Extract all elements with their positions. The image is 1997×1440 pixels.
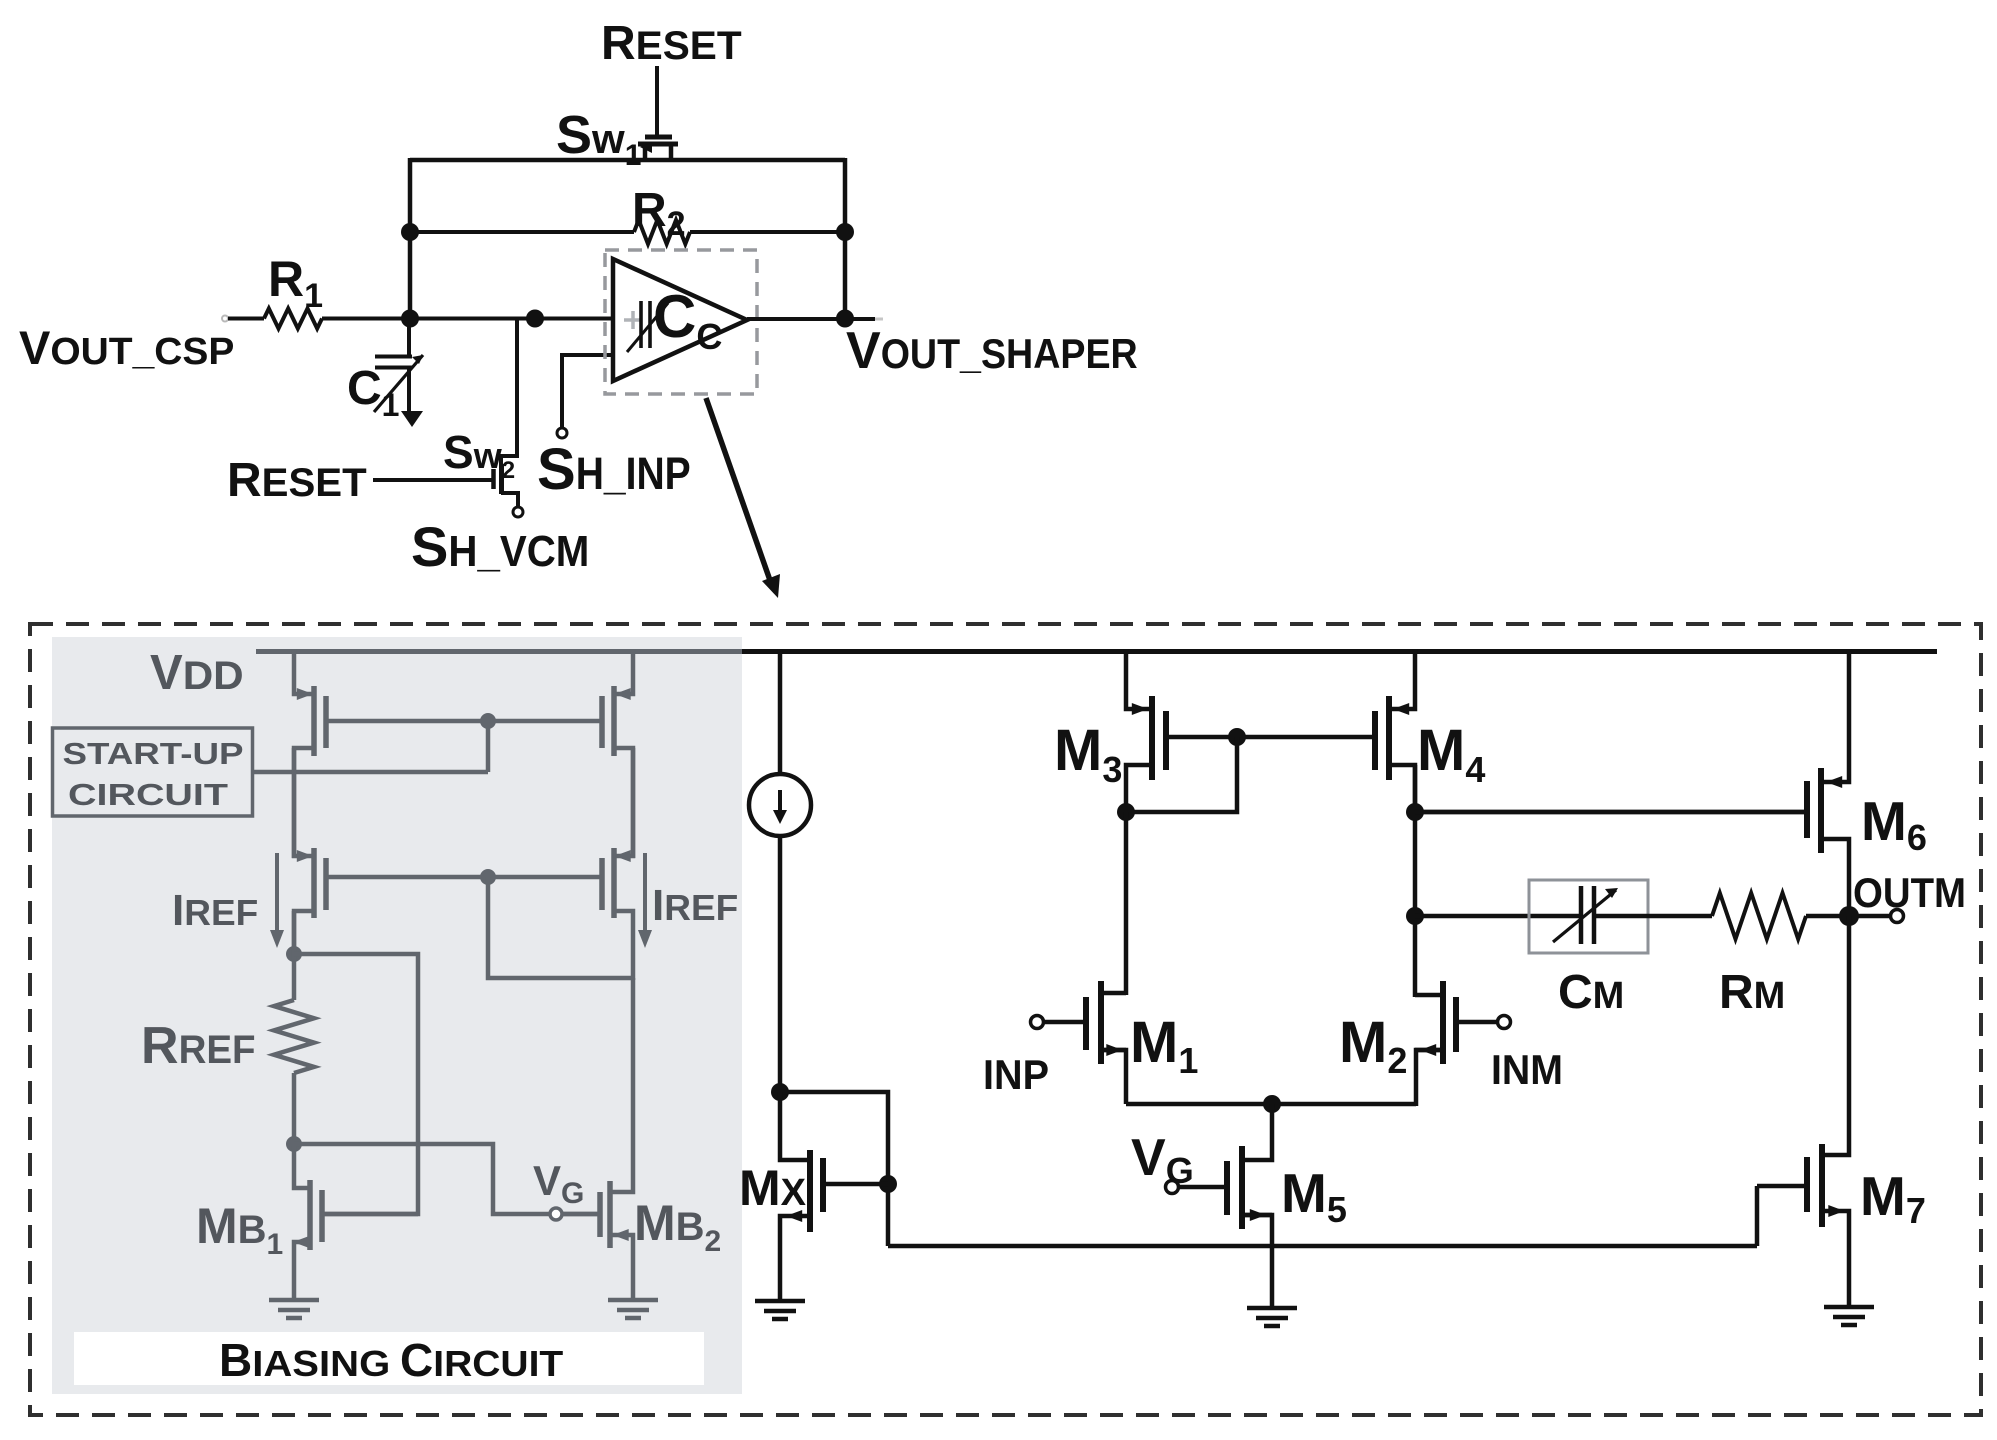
current IREF right arrow [638,853,652,948]
label RM [1719,966,1785,1019]
svg-text:START-UP: START-UP [63,736,244,771]
svg-text:VDD: VDD [150,646,244,700]
svg-text:MX: MX [739,1160,807,1216]
label M3 [1054,718,1122,790]
ground (MB2) [608,1300,658,1318]
label RESET (left) [227,454,367,507]
ground (M7) [1824,1307,1874,1325]
wire MX gate link [780,1092,888,1246]
label SH_INP [537,437,691,502]
label INM [1491,1046,1563,1093]
label M6 [1861,790,1927,858]
wire right feedback riser [843,158,848,321]
svg-text:OUTM: OUTM [1853,869,1966,916]
current IREF left arrow [270,853,284,948]
label RREF [141,1017,256,1075]
label VOUT_SHAPER [846,322,1138,380]
wire start-up output [253,723,488,772]
svg-text:IREF: IREF [652,881,738,930]
power rail VDD (black segment) [742,649,1937,654]
node OUTM terminal [1891,910,1904,923]
svg-text:M1: M1 [1130,1010,1198,1081]
label OUTM [1853,869,1966,916]
node OUTM junction [1839,906,1859,926]
svg-text:M7: M7 [1860,1165,1926,1231]
transistor MB2 [561,978,633,1300]
label CC [653,283,722,357]
svg-text:M3: M3 [1054,718,1122,790]
ground (MX) [755,1301,805,1319]
node VG terminal [1166,1181,1179,1194]
capacitor C1 (variable, with down arrow) [374,318,423,427]
transistor SW1 (reset switch) [638,137,678,161]
transistor SW2 (reset switch 2) [494,318,524,517]
svg-text:RM: RM [1719,966,1785,1019]
transistor M6 [1415,649,1849,916]
svg-text:VOUT_CSP: VOUT_CSP [19,321,234,374]
label VDD [150,646,244,700]
wire cascode diode connection [488,877,633,978]
transistor M5 [1179,1104,1272,1229]
node RREF top junction [286,946,302,962]
op-amp U1 dashed box [605,250,757,394]
wire M3 diode connection [1126,737,1237,812]
ground (MB1) [269,1300,319,1318]
wire input start tick [222,316,228,322]
svg-text:CM: CM [1558,966,1624,1019]
transistor bias cascode PMOS right [488,748,633,980]
start-up circuit block [53,728,253,816]
svg-text:M4: M4 [1417,718,1485,790]
node cascode gate junction [480,869,496,885]
label M7 [1860,1165,1926,1231]
svg-text:SH_INP: SH_INP [537,437,691,502]
transistor bias PMOS left (mirror top-left) [294,649,488,858]
label MX [739,1160,807,1216]
resistor R2 [410,220,845,244]
svg-text:R1: R1 [268,251,323,315]
biasing circuit gray panel [52,637,742,1394]
op-amp U1 [613,259,747,381]
node output junction [836,310,854,328]
wire M7 gate riser [1755,1186,1760,1246]
wire M6 gate link [1415,810,1807,815]
wire M5 source to ground [1242,1215,1272,1308]
op-amp plus marker [624,311,642,329]
label C1 [347,362,399,423]
node input junction [401,310,419,328]
resistor R1 [228,309,613,329]
dashed boundary of amplifier schematic [30,624,1981,1415]
svg-text:SH_VCM: SH_VCM [411,515,589,578]
label MB1 [196,1198,283,1261]
svg-text:RESET: RESET [227,454,367,507]
svg-text:INP: INP [983,1051,1049,1098]
svg-text:CIRCUIT: CIRCUIT [68,777,228,812]
ground (M5) [1247,1308,1297,1326]
resistor RREF [274,911,314,1146]
wire M1 source to tail [1101,1050,1126,1104]
node tail junction [1263,1095,1281,1113]
svg-text:INM: INM [1491,1046,1563,1093]
node SW2 tap [526,310,544,328]
svg-text:M5: M5 [1281,1162,1347,1230]
wire differential tail [1126,1102,1416,1107]
label INP [983,1051,1049,1098]
node output-tap junction [1406,907,1424,925]
node RESET (top label) [601,17,742,70]
label M5 [1281,1162,1347,1230]
label VOUT_CSP [19,321,234,374]
node junction R2-right [836,223,854,241]
wire M4 drain stack [1413,765,1418,997]
transistor M1 [1044,981,1126,1064]
label IREF left [172,886,258,935]
transistor M3 [1126,649,1237,814]
node M3 drain junction [1117,803,1135,821]
node MX gate junction [879,1175,897,1193]
wire left feedback riser [408,158,413,321]
transistor bias cascode PMOS left [294,748,488,956]
svg-text:CC: CC [653,283,722,357]
transistor M7 [1757,916,1849,1307]
wire M3 drain to M1 [1124,812,1129,995]
label VG [1131,1129,1194,1191]
svg-text:M6: M6 [1861,790,1927,858]
node RREF bottom junction [286,1136,302,1152]
transistor M2 [1415,981,1497,1064]
wire compensation branch [1415,914,1581,919]
node VG (bias) terminal [550,1208,600,1220]
label M2 [1339,1010,1407,1081]
label SW1 [556,105,641,172]
wire MB1 gate link [294,954,418,1214]
node junction R2-left [401,223,419,241]
node M4 drain junction (M6 gate) [1406,803,1424,821]
label M4 [1417,718,1485,790]
transistor bias PMOS right (mirror top-right) [488,649,633,858]
label IREF right [652,881,738,930]
node mirror gate junction [1228,728,1246,746]
capacitor CC (variable, inside op-amp) [627,301,668,352]
wire M2 source to tail [1416,1050,1443,1106]
label BIASING CIRCUIT [74,1332,704,1386]
label R2 [632,184,686,243]
svg-text:VOUT_SHAPER: VOUT_SHAPER [846,322,1138,380]
wire RESET to SW1 gate [655,66,659,136]
wire gate bus to M7 [888,1244,1757,1249]
label SH_VCM [411,515,589,578]
node bias gate junction [480,713,496,729]
arrow annotation to detailed schematic [706,398,780,598]
power rail VDD (gray segment) [256,649,745,654]
svg-text:IREF: IREF [172,886,258,935]
current source Ibias [749,649,811,1094]
label VG (bias) [533,1157,584,1210]
label M1 [1130,1010,1198,1081]
resistor RM [1594,893,1890,939]
transistor M4 [1237,649,1415,814]
label SW2 [443,426,515,484]
transistor MX [780,1092,888,1301]
svg-text:RESET: RESET [601,17,742,70]
wire RESET to SW2 gate [373,478,492,482]
node INM terminal [1498,1016,1511,1029]
label CM [1558,966,1624,1019]
svg-text:VG: VG [1131,1129,1194,1191]
svg-text:M2: M2 [1339,1010,1407,1081]
label R1 [268,251,323,315]
svg-text:R2: R2 [632,184,686,243]
wire MB2 gate link [294,1144,550,1214]
wire op-amp output [747,317,883,321]
transistor MB1 [293,1146,418,1300]
capacitor CM (variable, boxed) [1529,880,1648,953]
wire SH_INP to op-amp minus input [557,355,613,438]
node tail bias junction [771,1083,789,1101]
node INP terminal [1031,1016,1044,1029]
svg-text:C1: C1 [347,362,399,423]
wire top feedback [410,158,845,163]
label MB2 [634,1195,721,1258]
